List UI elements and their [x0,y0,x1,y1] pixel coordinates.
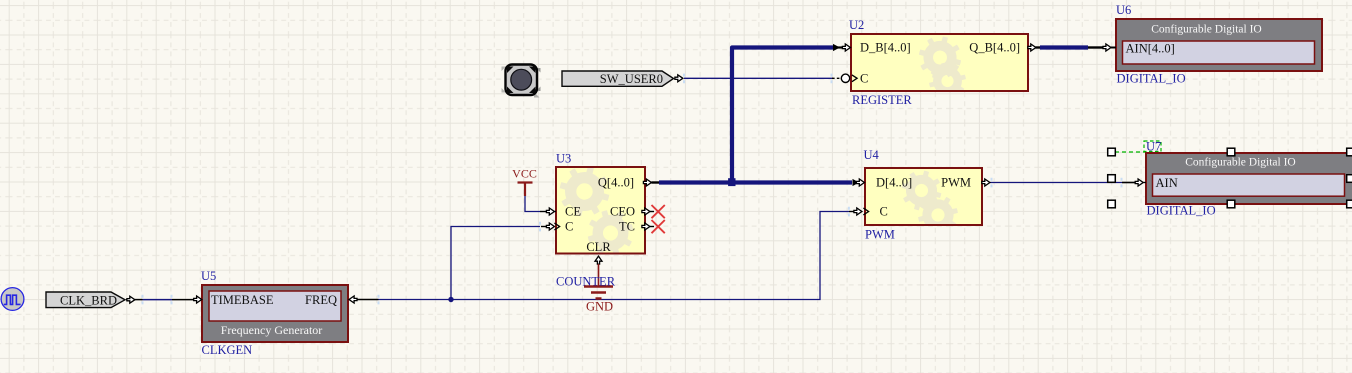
wire U4.PWM to U7.AIN [990,182,1136,184]
wire junction to U3.C [451,227,540,300]
digital io U6 [1116,3,1322,86]
pin U2.Q_B[4..0] [1028,44,1040,51]
pin U3.CEO with no-connect [642,205,665,218]
svg-text:Q_B[4..0]: Q_B[4..0] [969,41,1020,55]
svg-text:U2: U2 [849,18,864,32]
pin U5.TIMEBASE [194,296,202,303]
pin U4.C (clock) [849,208,869,215]
pin U3.CE [540,208,556,215]
svg-text:Q[4..0]: Q[4..0] [598,176,634,190]
svg-text:C: C [860,71,868,85]
pin U3.TC with no-connect [642,220,665,233]
svg-text:C: C [565,220,573,234]
pin U7.AIN [1135,179,1146,186]
port SW_USER0 [562,71,683,86]
wire U5.FREQ to junction to U4.C [356,212,849,305]
svg-text:PWM: PWM [941,176,971,190]
svg-text:D_B[4..0]: D_B[4..0] [860,41,911,55]
clock source icon [1,288,24,311]
pin U4.PWM [982,179,990,186]
pin U3.Q[4..0] [643,179,659,186]
VCC power symbol [512,167,540,212]
svg-text:FREQ: FREQ [305,293,337,307]
svg-text:VCC: VCC [512,167,537,181]
pin U3.C (clock) [541,223,560,230]
svg-text:D[4..0]: D[4..0] [876,176,912,190]
pin U2.C (clock input) [832,74,857,82]
bus vertical riser to U2.D_B [732,48,833,183]
svg-text:REGISTER: REGISTER [852,93,912,107]
svg-text:C: C [880,205,888,219]
svg-text:AIN[4..0]: AIN[4..0] [1126,42,1175,56]
pin U4.D[4..0] [853,179,865,186]
svg-text:PWM: PWM [865,228,895,242]
push button SW_USER0 icon [502,65,541,98]
pwm U4 [864,148,983,242]
svg-text:GND: GND [586,300,613,314]
svg-text:DIGITAL_IO: DIGITAL_IO [1117,72,1186,86]
svg-text:U3: U3 [556,152,571,166]
port CLK_BRD [46,292,135,308]
svg-text:CLR: CLR [586,240,611,254]
digital io U7 (selected) [1115,140,1352,218]
pin U3.CLR [595,256,602,264]
counter U3 [556,152,645,263]
junction dot [448,297,453,302]
svg-text:DIGITAL_IO: DIGITAL_IO [1147,204,1216,218]
svg-text:COUNTER: COUNTER [556,275,616,289]
svg-text:SW_USER0: SW_USER0 [600,72,663,86]
svg-text:AIN: AIN [1156,176,1178,190]
gnd symbol [584,264,613,314]
svg-text:U5: U5 [201,269,216,283]
bus U2.Q_B to U6.AIN [1040,45,1088,49]
wire SW_USER0 to U2.C [684,77,833,79]
svg-text:U6: U6 [1116,3,1131,17]
selection handles U7 [1108,148,1352,208]
frequency generator U5 [201,269,348,357]
svg-text:U4: U4 [864,148,880,162]
svg-text:Configurable Digital IO: Configurable Digital IO [1185,157,1296,169]
svg-text:Frequency Generator: Frequency Generator [221,323,323,337]
svg-text:CEO: CEO [610,205,635,219]
pin U2.D_B[4..0] [833,44,850,51]
bus U3.Q to U4.D [659,180,852,184]
pin U5.FREQ [349,296,357,303]
svg-text:TC: TC [619,220,635,234]
pin U6.AIN[4..0] [1088,44,1116,51]
wire endpoint markers [540,74,1122,232]
svg-text:U7: U7 [1146,140,1161,154]
svg-text:CE: CE [565,205,581,219]
svg-text:Configurable Digital IO: Configurable Digital IO [1151,24,1262,36]
register U2 [849,18,1028,107]
bus junction [728,178,735,186]
svg-text:CLK_BRD: CLK_BRD [60,294,117,308]
svg-text:CLKGEN: CLKGEN [202,343,253,357]
svg-text:TIMEBASE: TIMEBASE [211,293,274,307]
wire CLK_BRD to U5.TIMEBASE [134,295,195,305]
label COUNTER [556,275,616,289]
